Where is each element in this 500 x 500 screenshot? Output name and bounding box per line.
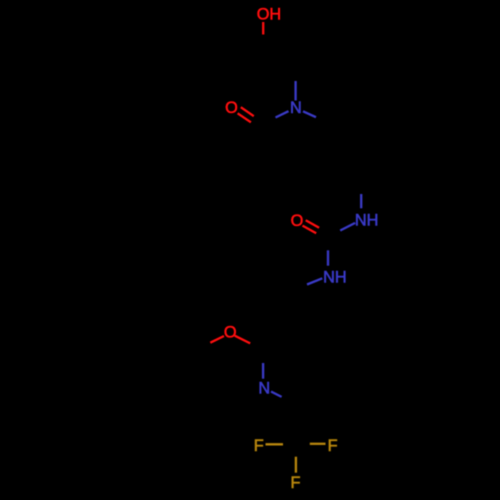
wire: urea C=O double bond half line 2 (303, 226, 317, 234)
svg-text:NH: NH (323, 268, 347, 286)
svg-text:O: O (225, 99, 238, 117)
svg-text:N: N (258, 380, 270, 398)
wire: C=O double bond half line 2 (238, 113, 251, 122)
wire: NH to CH2 bond half (307, 278, 322, 284)
svg-text:O: O (224, 324, 237, 342)
svg-text:OH: OH (257, 5, 281, 23)
wire: urea C to NH bond half (vertical) (327, 250, 329, 265)
wire: C-N bond half above urea NH (360, 194, 362, 208)
wire: ring C-N bond half above pyridine N (262, 363, 264, 379)
wire: F-C bond half (left horizontal) (266, 443, 284, 445)
wire: C=O double bond half line 1 (241, 107, 254, 116)
wire: O-ring C bond half (right) (235, 336, 250, 344)
wire: C-F bond half (vertical) (295, 457, 297, 473)
wire: O-CH3 bond half (left) (210, 336, 224, 343)
wire: C-N bond half above amide N (294, 81, 296, 101)
svg-text:NH: NH (355, 211, 379, 229)
wire: O-C bond half below OH (262, 22, 264, 35)
svg-text:F: F (291, 474, 301, 492)
svg-text:O: O (291, 212, 304, 230)
wire: NH to urea carbonyl C half (340, 223, 355, 231)
wire: pyridine N to ring C half (lower right) (271, 392, 282, 397)
wire: N to carbonyl C half (left) (276, 111, 289, 117)
wire: C-F bond half (right horizontal) (310, 443, 326, 445)
wire: urea C=O double bond half line 1 (306, 220, 319, 228)
svg-text:F: F (254, 437, 264, 455)
svg-text:N: N (290, 99, 302, 117)
svg-text:F: F (328, 437, 338, 455)
wire: N to ring C half (right) (303, 111, 316, 117)
